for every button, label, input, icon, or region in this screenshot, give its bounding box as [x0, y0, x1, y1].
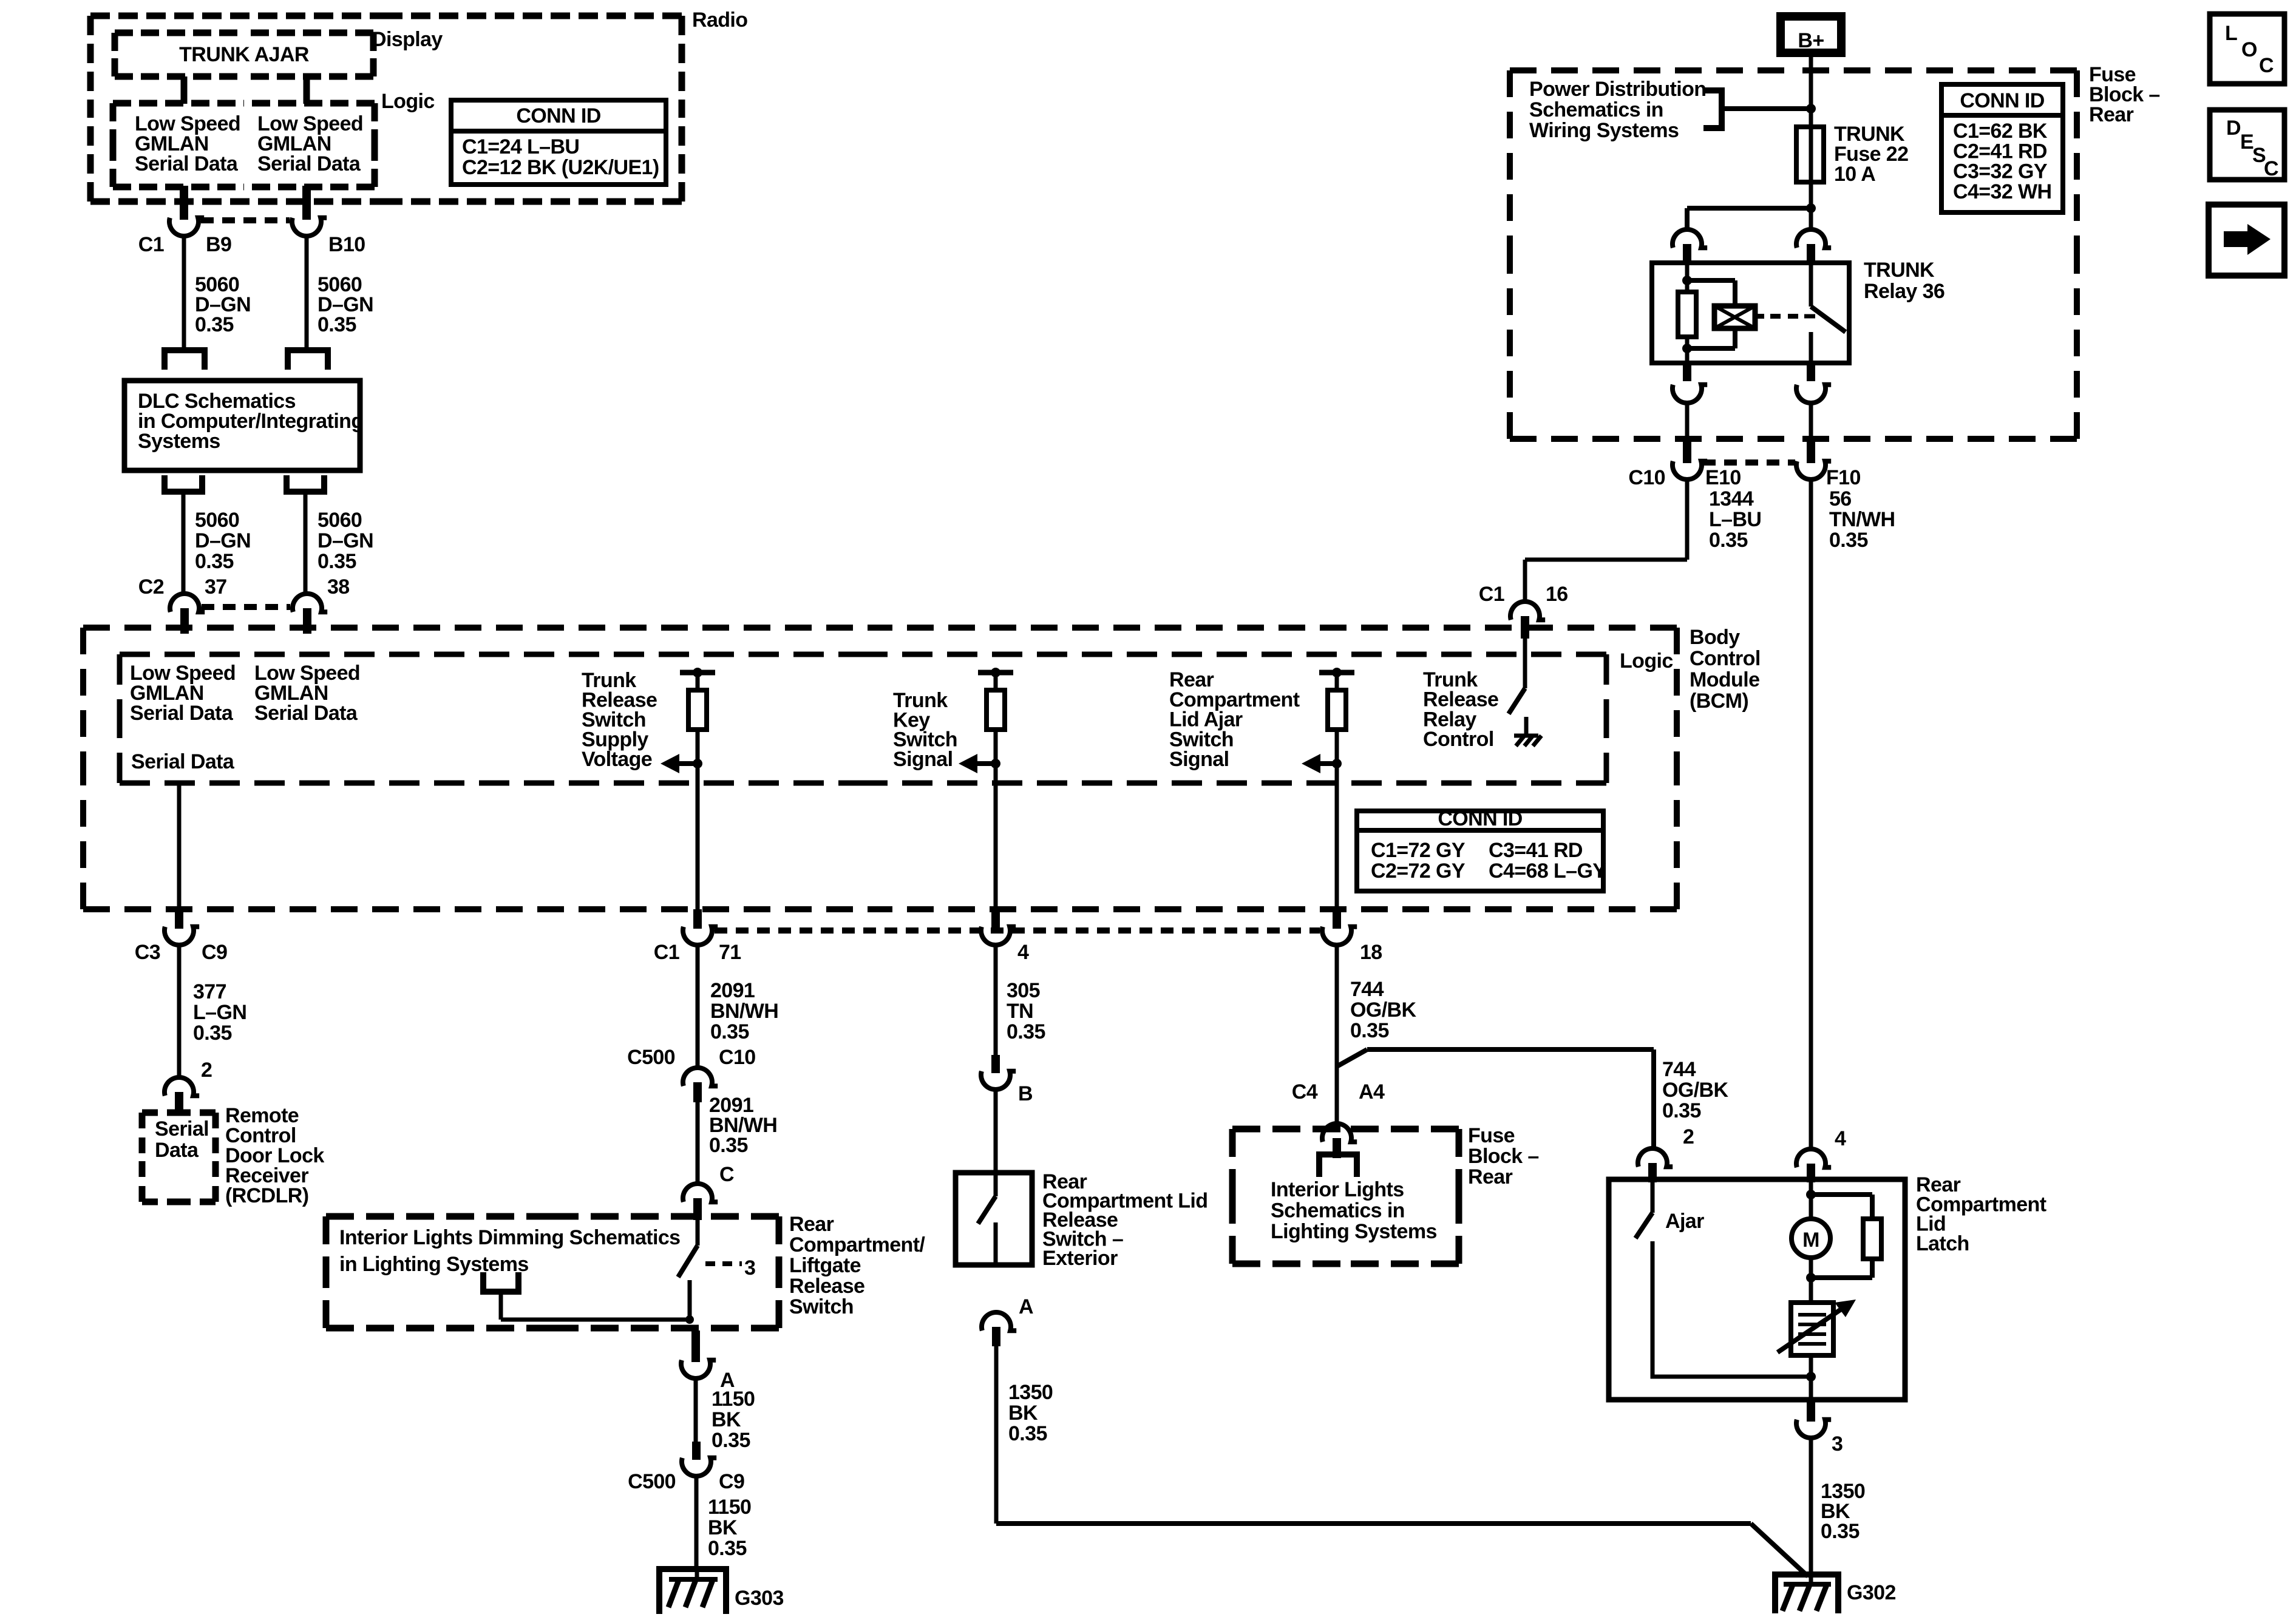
- connector relay pin 30: [1796, 229, 1831, 265]
- label Rear Compartment Lid Latch: [1916, 1173, 2046, 1255]
- connector C1 pin 71 (below BCM): [654, 909, 741, 964]
- label Logic (radio): [381, 90, 435, 113]
- label Remote Control Door Lock Receiver (RCDLR): [225, 1104, 324, 1207]
- value label 744 OG/BK 0.35 (left): [1350, 978, 1416, 1042]
- connector relay pin 87: [1673, 363, 1707, 403]
- relay switch: [1811, 263, 1846, 363]
- svg-text:A4: A4: [1359, 1080, 1385, 1103]
- svg-text:0.35: 0.35: [1662, 1099, 1701, 1122]
- svg-text:Latch: Latch: [1916, 1232, 1969, 1255]
- resistor trunk key switch signal (BCM): [959, 668, 1013, 773]
- svg-text:D–GN: D–GN: [318, 529, 373, 552]
- svg-text:C9: C9: [719, 1470, 744, 1493]
- connector pair link C10: [1703, 459, 1795, 466]
- svg-text:C: C: [719, 1163, 734, 1186]
- ground G302: [1775, 1575, 1896, 1613]
- svg-text:0.35: 0.35: [318, 550, 356, 573]
- Body Control Module dashed box: [83, 628, 1677, 909]
- svg-text:Module: Module: [1690, 668, 1759, 691]
- wire 744 branch diagonal: [1337, 1049, 1367, 1066]
- svg-text:Compartment/: Compartment/: [789, 1233, 925, 1256]
- wire 1344 L-BU route: [1525, 480, 1687, 602]
- svg-text:Schematics in: Schematics in: [1529, 98, 1663, 121]
- svg-text:C1: C1: [138, 233, 164, 256]
- node Low Speed GMLAN Serial Data (radio left): [135, 112, 240, 175]
- terminal bracket into DLC right: [288, 350, 328, 370]
- svg-text:TRUNK AJAR: TRUNK AJAR: [179, 43, 309, 66]
- svg-text:C1=62 BK: C1=62 BK: [1953, 120, 2048, 143]
- svg-text:0.35: 0.35: [193, 1022, 232, 1045]
- svg-text:L–GN: L–GN: [193, 1001, 246, 1024]
- wire branch to relay coil: [1687, 208, 1811, 229]
- node Serial Data (RCDLR): [155, 1117, 209, 1162]
- legend box LOC: [2210, 14, 2284, 84]
- svg-text:Radio: Radio: [692, 8, 747, 32]
- svg-text:Rear: Rear: [789, 1213, 834, 1236]
- connector pin A (exterior switch): [982, 1295, 1033, 1346]
- node Rear Compartment Lid Ajar Switch Signal: [1169, 668, 1300, 771]
- wire serial data inside BCM: [177, 783, 182, 909]
- svg-text:0.35: 0.35: [1829, 529, 1868, 552]
- svg-text:Liftgate: Liftgate: [789, 1254, 861, 1277]
- value label 5060 D-GN 0.35 (upper left): [195, 273, 251, 336]
- label Interior Lights Schematics in Lighting Systems: [1271, 1178, 1437, 1243]
- legend box DESC: [2210, 110, 2284, 180]
- svg-text:C1: C1: [654, 941, 679, 964]
- svg-text:M: M: [1802, 1229, 1819, 1252]
- Rear Compartment Lid Latch box: [1609, 1179, 1905, 1400]
- svg-text:Data: Data: [155, 1139, 199, 1162]
- svg-text:Voltage: Voltage: [582, 748, 652, 771]
- svg-text:1150: 1150: [708, 1496, 751, 1519]
- svg-text:4: 4: [1835, 1127, 1846, 1150]
- label Fuse Block - Rear (lower): [1468, 1124, 1539, 1188]
- value label 5060 D-GN 0.35 (lower right): [318, 509, 373, 573]
- svg-text:0.35: 0.35: [195, 313, 234, 336]
- svg-text:71: 71: [719, 941, 741, 964]
- BCM logic dashed box: [120, 654, 1606, 783]
- svg-text:Logic: Logic: [1620, 649, 1673, 673]
- value label 1350 BK 0.35 (right): [1821, 1480, 1865, 1543]
- svg-text:G303: G303: [735, 1587, 784, 1610]
- label Interior Lights Dimming Schematics in Lighting Systems: [339, 1226, 681, 1276]
- connector C1 pin B9 (radio): [138, 186, 232, 256]
- value label 1344 L-BU 0.35: [1709, 487, 1761, 552]
- svg-text:Wiring Systems: Wiring Systems: [1529, 119, 1679, 142]
- wire fuse to relay: [1809, 182, 1813, 229]
- svg-text:(RCDLR): (RCDLR): [225, 1184, 308, 1207]
- Radio logic dashed box: [113, 103, 375, 187]
- switch trunk release relay control (BCM): [1509, 636, 1526, 736]
- svg-text:F10: F10: [1826, 466, 1861, 489]
- wire 1150 BK lower: [695, 1476, 699, 1572]
- value label 1350 BK 0.35 (left): [1008, 1381, 1053, 1445]
- svg-text:CONN ID: CONN ID: [516, 104, 600, 127]
- svg-text:C2=12 BK (U2K/UE1): C2=12 BK (U2K/UE1): [462, 156, 659, 179]
- relay coil circuit: [1678, 263, 1735, 363]
- svg-text:Signal: Signal: [1169, 748, 1229, 771]
- label Body Control Module (BCM): [1690, 626, 1761, 713]
- Fuse Block - Rear dashed box (lower): [1232, 1129, 1459, 1264]
- wire B+ to fuse: [1809, 53, 1813, 127]
- svg-text:Serial Data: Serial Data: [130, 702, 234, 725]
- svg-text:Serial Data: Serial Data: [135, 152, 239, 175]
- connector C3 pin C9 (below BCM): [135, 909, 228, 964]
- svg-text:16: 16: [1546, 583, 1568, 606]
- CONN ID table (BCM): [1357, 807, 1606, 891]
- connector pair link C2: [202, 604, 290, 610]
- svg-text:TN/WH: TN/WH: [1829, 508, 1895, 531]
- svg-text:1344: 1344: [1709, 487, 1754, 510]
- svg-text:0.35: 0.35: [1821, 1520, 1860, 1543]
- connector pin 4 (below BCM): [981, 909, 1029, 964]
- svg-text:BN/WH: BN/WH: [710, 1000, 778, 1023]
- connector C1 pin 16 (BCM top): [1479, 583, 1568, 639]
- node Low Speed GMLAN Serial Data (radio right): [257, 112, 363, 175]
- label TRUNK Fuse 22 10 A: [1834, 123, 1908, 186]
- svg-text:Serial: Serial: [155, 1117, 209, 1141]
- label Power Distribution Schematics in Wiring Systems: [1529, 78, 1706, 142]
- svg-text:5060: 5060: [195, 509, 239, 532]
- svg-text:0.35: 0.35: [1008, 1422, 1047, 1445]
- value label 744 OG/BK 0.35 (right): [1662, 1058, 1728, 1122]
- svg-text:Relay 36: Relay 36: [1864, 280, 1944, 303]
- svg-text:B9: B9: [206, 233, 231, 256]
- junction latch return: [1806, 1355, 1816, 1400]
- svg-text:56: 56: [1829, 487, 1852, 510]
- svg-text:Display: Display: [372, 28, 443, 51]
- svg-text:Logic: Logic: [381, 90, 435, 113]
- connector C2 pin 37 (BCM): [138, 575, 227, 634]
- power node B+: [1781, 16, 1841, 53]
- svg-text:38: 38: [327, 575, 350, 598]
- wire 5060 D-GN upper right: [305, 236, 309, 350]
- connector C10 pin E10: [1628, 439, 1741, 489]
- svg-text:1350: 1350: [1008, 1381, 1053, 1404]
- svg-text:Control: Control: [1690, 647, 1761, 670]
- svg-text:1150: 1150: [712, 1388, 755, 1411]
- wire display to logic left: [181, 76, 188, 104]
- node Trunk Release Switch Supply Voltage: [582, 669, 657, 771]
- label Ajar: [1665, 1210, 1704, 1233]
- svg-text:Systems: Systems: [138, 430, 220, 453]
- connector pair link C1: [201, 217, 290, 223]
- svg-text:377: 377: [193, 980, 226, 1003]
- svg-text:Interior Lights: Interior Lights: [1271, 1178, 1404, 1201]
- svg-text:Serial Data: Serial Data: [131, 750, 235, 773]
- svg-text:O: O: [2241, 38, 2257, 61]
- svg-text:Lighting Systems: Lighting Systems: [1271, 1220, 1437, 1243]
- label Radio: [692, 8, 747, 32]
- wire 305 TN: [994, 945, 998, 1055]
- svg-text:L: L: [2225, 22, 2237, 45]
- svg-text:744: 744: [1350, 978, 1384, 1001]
- svg-text:C3: C3: [135, 941, 160, 964]
- connector C500 pin C10: [627, 1046, 755, 1102]
- svg-text:5060: 5060: [318, 509, 362, 532]
- svg-text:Signal: Signal: [893, 748, 953, 771]
- connector pin 4 (latch): [1796, 1127, 1846, 1182]
- switch spring link (dimming): [705, 1256, 755, 1280]
- motor M (latch): [1792, 1179, 1830, 1303]
- node TRUNK AJAR: [179, 43, 309, 66]
- svg-text:C1=24 L–BU: C1=24 L–BU: [462, 135, 579, 158]
- svg-text:L–BU: L–BU: [1709, 508, 1761, 531]
- svg-text:C3=41 RD: C3=41 RD: [1489, 839, 1583, 862]
- svg-text:in Lighting Systems: in Lighting Systems: [339, 1253, 529, 1276]
- connector pin 38 (BCM): [293, 575, 350, 634]
- resistor rear compartment lid ajar switch signal (BCM): [1302, 668, 1354, 773]
- svg-text:305: 305: [1007, 979, 1040, 1002]
- switch ajar (latch): [1635, 1179, 1809, 1377]
- svg-text:E10: E10: [1705, 466, 1741, 489]
- label Rear Compartment/Liftgate Release Switch: [789, 1213, 925, 1318]
- connector C10 pin F10: [1796, 439, 1861, 489]
- svg-text:C3=32 GY: C3=32 GY: [1953, 160, 2048, 183]
- CONN ID table (radio): [451, 100, 666, 185]
- connector relay pin 85: [1673, 229, 1707, 265]
- switch rear compartment/liftgate release: [678, 1220, 698, 1324]
- svg-text:0.35: 0.35: [195, 550, 234, 573]
- svg-text:BK: BK: [708, 1516, 738, 1539]
- connector pin C (release switch): [683, 1163, 734, 1220]
- connector pin B (exterior switch): [981, 1055, 1033, 1105]
- svg-text:0.35: 0.35: [708, 1537, 747, 1560]
- terminal bracket below DLC right: [287, 475, 324, 492]
- svg-text:18: 18: [1360, 941, 1382, 964]
- svg-text:D–GN: D–GN: [195, 529, 251, 552]
- svg-text:Release: Release: [789, 1275, 864, 1298]
- svg-text:TRUNK: TRUNK: [1864, 259, 1935, 282]
- connector C4 pin A4: [1292, 1080, 1385, 1158]
- svg-text:Serial Data: Serial Data: [254, 702, 358, 725]
- svg-text:Power Distribution: Power Distribution: [1529, 78, 1706, 101]
- ground G303: [659, 1569, 784, 1614]
- value label 5060 D-GN 0.35 (upper right): [318, 273, 373, 336]
- fuse TRUNK Fuse 22 10A: [1796, 127, 1824, 182]
- svg-text:0.35: 0.35: [318, 313, 356, 336]
- svg-text:B: B: [1018, 1082, 1033, 1105]
- wire 744 to latch: [1367, 1049, 1654, 1148]
- node Trunk Release Relay Control: [1423, 668, 1498, 751]
- wire 1350 BK to ground run: [996, 1346, 1808, 1576]
- svg-text:0.35: 0.35: [710, 1020, 749, 1043]
- svg-text:OG/BK: OG/BK: [1662, 1079, 1728, 1102]
- svg-text:Interior Lights Dimming Schema: Interior Lights Dimming Schematics: [339, 1226, 681, 1249]
- svg-text:CONN ID: CONN ID: [1438, 807, 1522, 830]
- svg-text:744: 744: [1662, 1058, 1696, 1081]
- wire 1150 BK upper: [694, 1378, 698, 1442]
- value label 305 TN 0.35: [1007, 979, 1045, 1043]
- wire 56 TN/WH long: [1809, 480, 1813, 1149]
- svg-text:0.35: 0.35: [1350, 1019, 1389, 1042]
- svg-text:C500: C500: [627, 1046, 675, 1069]
- label Fuse Block - Rear (upper): [2089, 63, 2160, 126]
- Remote Control Door Lock Receiver dashed box: [142, 1113, 216, 1202]
- node Serial Data (BCM): [131, 750, 235, 773]
- svg-text:Rear: Rear: [2089, 103, 2134, 126]
- junction relay branch: [1806, 203, 1816, 213]
- svg-text:E: E: [2240, 131, 2254, 154]
- svg-text:C10: C10: [719, 1046, 756, 1069]
- svg-text:Fuse: Fuse: [1468, 1124, 1515, 1147]
- label Rear Compartment Lid Release Switch - Exterior: [1042, 1170, 1207, 1270]
- terminal bracket below DLC left: [165, 475, 202, 492]
- label Display: [372, 28, 443, 51]
- connector pin A (release switch): [681, 1331, 735, 1392]
- svg-text:0.35: 0.35: [709, 1134, 748, 1157]
- wire dimming feed: [501, 1292, 690, 1320]
- svg-text:Block –: Block –: [1468, 1145, 1539, 1168]
- Rear Compartment Lid Release Switch box: [956, 1173, 1032, 1265]
- svg-text:Control: Control: [1423, 728, 1494, 751]
- connector C500 pin C9: [628, 1442, 744, 1493]
- svg-text:37: 37: [205, 575, 227, 598]
- svg-text:C4=32 WH: C4=32 WH: [1953, 180, 2051, 203]
- connector pin 3 (latch): [1796, 1400, 1843, 1456]
- svg-text:CONN ID: CONN ID: [1960, 89, 2044, 112]
- value label 2091 BN/WH 0.35 (upper): [710, 979, 778, 1043]
- wire 5060 D-GN upper left: [182, 236, 186, 350]
- Fuse Block - Rear dashed box (upper): [1510, 70, 2077, 439]
- wire 2091 to release switch: [696, 1102, 700, 1184]
- svg-text:(BCM): (BCM): [1690, 690, 1748, 713]
- svg-text:2: 2: [1683, 1125, 1694, 1148]
- svg-text:B+: B+: [1798, 29, 1824, 52]
- relay actuator link: [1755, 314, 1815, 319]
- relay coil symbol: [1714, 306, 1755, 328]
- wire display to logic right: [304, 76, 310, 104]
- node Trunk Key Switch Signal: [893, 689, 957, 771]
- Display dashed box: [115, 33, 373, 76]
- connector pair link C1 (below BCM): [715, 927, 1320, 934]
- svg-text:Schematics in: Schematics in: [1271, 1199, 1405, 1222]
- wire 5060 D-GN lower left: [182, 492, 186, 594]
- svg-text:Exterior: Exterior: [1042, 1247, 1118, 1270]
- svg-text:C9: C9: [202, 941, 227, 964]
- wire 1350 BK to G302: [1809, 1438, 1813, 1575]
- svg-text:B10: B10: [328, 233, 365, 256]
- CONN ID table (fuse block): [1941, 84, 2063, 212]
- wire key inside BCM: [994, 764, 998, 909]
- svg-text:BK: BK: [712, 1408, 741, 1431]
- node Low Speed GMLAN Serial Data (BCM left): [130, 662, 236, 725]
- svg-text:BK: BK: [1008, 1402, 1038, 1425]
- svg-text:2091: 2091: [710, 979, 755, 1002]
- svg-text:C: C: [2259, 54, 2274, 77]
- relay box TRUNK Relay 36: [1652, 263, 1849, 363]
- svg-text:C4=68 L–GY: C4=68 L–GY: [1489, 859, 1606, 883]
- svg-text:0.35: 0.35: [1709, 529, 1748, 552]
- svg-text:0.35: 0.35: [712, 1429, 750, 1452]
- svg-text:Rear: Rear: [1468, 1165, 1513, 1188]
- svg-text:TN: TN: [1007, 1000, 1033, 1023]
- svg-text:0.35: 0.35: [1007, 1020, 1045, 1043]
- terminal bracket (dimming feed): [483, 1272, 518, 1292]
- wire relay 86 to F10: [1809, 403, 1813, 439]
- wire ajar inside BCM: [1335, 764, 1339, 909]
- node Low Speed GMLAN Serial Data (BCM right): [254, 662, 360, 725]
- svg-text:Body: Body: [1690, 626, 1740, 649]
- label TRUNK Relay 36: [1864, 259, 1944, 303]
- wire relay 87 to C10: [1685, 403, 1690, 439]
- resistor (latch): [1811, 1195, 1881, 1278]
- svg-text:Ajar: Ajar: [1665, 1210, 1704, 1233]
- junction B+ branch: [1806, 104, 1816, 114]
- wire serial data to RCDLR: [177, 945, 182, 1077]
- svg-text:A: A: [1019, 1295, 1033, 1318]
- switch rear compartment lid release exterior: [978, 1173, 996, 1265]
- DLC Schematics box: [124, 381, 364, 470]
- svg-text:Serial Data: Serial Data: [257, 152, 361, 175]
- terminal bracket into DLC left: [165, 350, 205, 370]
- svg-text:C10: C10: [1628, 466, 1665, 489]
- svg-text:C2: C2: [138, 575, 164, 598]
- svg-text:D: D: [2226, 117, 2241, 140]
- svg-text:Switch: Switch: [789, 1295, 854, 1318]
- svg-text:2: 2: [201, 1059, 212, 1082]
- svg-text:C4: C4: [1292, 1080, 1318, 1103]
- legend box arrow: [2209, 205, 2284, 276]
- wire to exterior switch: [994, 1090, 998, 1173]
- wire supply inside BCM: [696, 764, 700, 909]
- svg-text:C: C: [2264, 157, 2278, 180]
- svg-text:C1=72 GY: C1=72 GY: [1371, 839, 1466, 862]
- svg-text:C500: C500: [628, 1470, 676, 1493]
- value label 1150 BK 0.35 (upper): [712, 1388, 755, 1452]
- connector pin 2 (RCDLR): [165, 1059, 212, 1114]
- resistor trunk release switch supply voltage (BCM): [661, 668, 715, 773]
- wire 744 OG/BK from pin 18: [1335, 945, 1339, 1124]
- Interior Lights Dimming dashed box: [326, 1216, 779, 1328]
- connector pin B10 (radio): [292, 186, 365, 256]
- Radio module dashed box: [90, 16, 682, 202]
- connector relay pin 86: [1796, 363, 1831, 403]
- value label 2091 BN/WH 0.35 (lower): [709, 1094, 777, 1157]
- variable resistor position sensor (latch): [1778, 1300, 1856, 1355]
- value label 5060 D-GN 0.35 (lower left): [195, 509, 251, 573]
- ground chassis (BCM relay control): [1514, 736, 1541, 746]
- svg-text:C2=72 GY: C2=72 GY: [1371, 859, 1466, 883]
- svg-text:OG/BK: OG/BK: [1350, 998, 1416, 1022]
- svg-text:C2=41 RD: C2=41 RD: [1953, 140, 2047, 163]
- value label 377 L-GN 0.35: [193, 980, 246, 1045]
- svg-text:3: 3: [1832, 1432, 1843, 1456]
- svg-text:10 A: 10 A: [1834, 163, 1875, 186]
- connector pin 2 (latch): [1638, 1125, 1694, 1182]
- wire 2091 BN/WH upper: [696, 945, 700, 1068]
- svg-text:C1: C1: [1479, 583, 1504, 606]
- svg-text:G302: G302: [1847, 1581, 1896, 1604]
- bracket power distribution: [1703, 90, 1811, 128]
- value label 1150 BK 0.35 (lower): [708, 1496, 751, 1560]
- terminal bracket interior lights: [1319, 1154, 1357, 1177]
- svg-text:3: 3: [744, 1256, 755, 1280]
- wire 5060 D-GN lower right: [304, 492, 308, 594]
- svg-text:4: 4: [1017, 941, 1029, 964]
- connector pin 18 (below BCM): [1322, 909, 1382, 964]
- value label 56 TN/WH 0.35: [1829, 487, 1895, 552]
- label Logic (BCM): [1620, 649, 1673, 673]
